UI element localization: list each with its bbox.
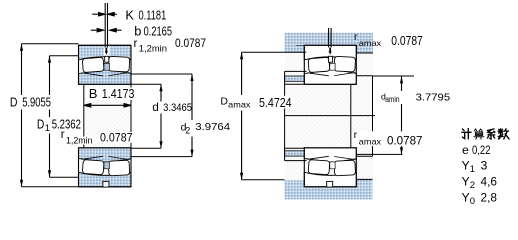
right bearing upper section [304, 45, 356, 84]
damin extension bottom [356, 153, 402, 155]
svg-text:amax: amax [359, 38, 382, 48]
recess step top [351, 80, 357, 82]
section outline [79, 45, 132, 84]
upper section [79, 45, 132, 84]
housing shoulder top right [355, 46, 374, 54]
svg-text:b: b [134, 23, 141, 38]
right bearing lower section [304, 148, 356, 187]
svg-text:D: D [220, 95, 228, 107]
housing band top [285, 33, 374, 46]
inner ring [304, 65, 356, 85]
svg-text:1,2min: 1,2min [66, 135, 93, 146]
lubrication groove slot [104, 46, 110, 56]
r amax bottom box [353, 131, 424, 146]
svg-text:Y: Y [462, 191, 470, 205]
shaft spacer bottom [285, 151, 307, 156]
groove notch bottom [103, 181, 109, 187]
b arrow right [110, 29, 122, 32]
hatch background right figure [285, 33, 374, 200]
svg-text:D: D [37, 116, 44, 131]
lower section (mirror) [79, 148, 132, 187]
B extension connector right [130, 84, 132, 148]
svg-text:2,8: 2,8 [481, 191, 498, 205]
B dimension line [84, 104, 131, 107]
roller left [308, 57, 330, 72]
recess step bottom [351, 150, 357, 152]
D dimension line [21, 44, 23, 187]
svg-text:0.0787: 0.0787 [391, 34, 423, 48]
hatch background bore column [84, 84, 131, 148]
svg-text:3.9764: 3.9764 [195, 121, 230, 133]
shaft bore line bottom [285, 147, 357, 149]
roller left [82, 57, 104, 72]
b arrow left [91, 29, 104, 32]
d2 extension top [131, 73, 192, 75]
svg-text:r: r [134, 38, 138, 50]
svg-text:D: D [10, 94, 18, 109]
D extension bottom [22, 186, 79, 188]
svg-text:3.3465: 3.3465 [163, 102, 192, 114]
B extension connector left [83, 84, 85, 148]
B text box [87, 88, 137, 100]
svg-text:5.9055: 5.9055 [22, 94, 51, 109]
cage center [330, 63, 335, 70]
svg-text:e: e [462, 143, 469, 157]
housing shoulder bottom right [353, 179, 373, 186]
svg-text:K: K [125, 8, 134, 23]
shaft line bottom left [285, 160, 307, 162]
svg-text:1.4173: 1.4173 [102, 86, 135, 101]
svg-text:0,22: 0,22 [472, 143, 491, 157]
cage line right [109, 73, 130, 76]
groove arrow [105, 48, 108, 55]
groove slot right [327, 46, 333, 56]
d extension top [131, 83, 161, 85]
D1 extension top [50, 55, 79, 57]
svg-text:0.0787: 0.0787 [387, 134, 423, 148]
svg-text:3: 3 [481, 159, 488, 173]
table title [462, 129, 509, 140]
housing shoulder bottom left [285, 180, 307, 187]
svg-text:B: B [89, 86, 98, 101]
shaft left cut line [284, 71, 286, 160]
groove notch bottom right [327, 181, 333, 187]
svg-text:0.0787: 0.0787 [175, 36, 206, 50]
d2 extension bottom [131, 156, 192, 158]
lubrication hole [105, 56, 109, 62]
Damax extension top [242, 51, 307, 53]
lubrication hole lines right [329, 28, 332, 47]
cage center [104, 63, 109, 70]
d dimension line [160, 84, 162, 148]
svg-text:amax: amax [359, 137, 382, 147]
svg-text:2: 2 [185, 125, 190, 135]
housing band bottom [285, 187, 373, 200]
svg-text:amin: amin [385, 95, 399, 104]
groove arrow right [329, 48, 332, 55]
shaft line top left [285, 70, 307, 72]
svg-text:0.2165: 0.2165 [144, 23, 172, 38]
svg-text:d: d [152, 101, 158, 114]
svg-text:5.2362: 5.2362 [52, 116, 81, 131]
svg-text:amax: amax [228, 99, 251, 109]
svg-text:2: 2 [470, 180, 475, 191]
shaft spacer top [285, 76, 307, 81]
housing shoulder top left [285, 46, 307, 53]
d2 dimension line [191, 74, 193, 157]
D1 dimension line [49, 56, 51, 178]
hole right [329, 56, 333, 62]
D extension top [22, 43, 79, 45]
K arrow left [92, 13, 105, 16]
cage line left [307, 73, 329, 76]
shaft bore line top [285, 83, 357, 85]
svg-text:0: 0 [470, 196, 475, 207]
svg-text:r: r [354, 31, 358, 43]
r 1,2min label bottom box [65, 137, 94, 145]
cage line right [334, 73, 355, 76]
svg-text:1,2min: 1,2min [139, 44, 167, 55]
svg-text:4,6: 4,6 [481, 175, 498, 189]
hatch background rollers [79, 46, 130, 84]
shaft end face [372, 76, 374, 157]
cage line left [82, 73, 104, 76]
svg-text:3.7795: 3.7795 [416, 92, 451, 103]
d extension bottom [131, 147, 161, 149]
roller right [334, 56, 356, 72]
damin extension top [373, 75, 415, 77]
Damax dimension line [241, 52, 243, 180]
svg-text:1: 1 [45, 123, 50, 134]
svg-text:0.1181: 0.1181 [139, 8, 167, 23]
Damax extension bottom [242, 179, 285, 181]
svg-text:r: r [61, 129, 65, 141]
inner ring [79, 65, 132, 85]
svg-text:Y: Y [462, 175, 470, 189]
svg-text:1: 1 [470, 164, 475, 175]
section outline [304, 45, 356, 84]
svg-text:0.0787: 0.0787 [100, 130, 133, 144]
outer ring raceway [304, 45, 356, 60]
svg-text:Y: Y [462, 159, 470, 173]
shaft shoulder bottom line [356, 155, 372, 157]
lubrication hole lines K [105, 3, 107, 47]
roller right [108, 56, 130, 72]
shaft shoulder top line [356, 75, 372, 77]
outer ring [79, 45, 132, 60]
housing bore line top [296, 45, 356, 47]
Damax label [257, 96, 295, 109]
svg-text:5.4724: 5.4724 [259, 95, 292, 110]
K arrow right [108, 13, 117, 16]
svg-text:r: r [354, 129, 358, 141]
damin dimension line [401, 76, 403, 154]
axis line [285, 115, 375, 117]
inner ring face recess line [350, 81, 352, 151]
D1 extension bottom [50, 176, 79, 178]
